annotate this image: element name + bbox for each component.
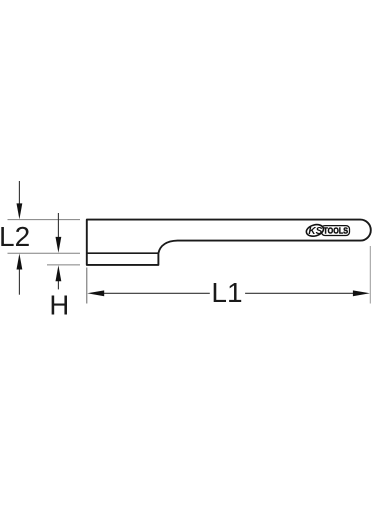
svg-text:L2: L2 bbox=[0, 221, 30, 252]
tool outline bbox=[87, 220, 371, 265]
extension line top bbox=[8, 219, 81, 221]
svg-text:H: H bbox=[49, 290, 69, 321]
dimension H top arrow bbox=[56, 213, 62, 253]
extension line step bbox=[8, 252, 81, 254]
extension line blade bottom bbox=[47, 264, 80, 266]
tool inner step line bbox=[87, 252, 159, 254]
dimension H bottom arrow bbox=[56, 265, 62, 289]
svg-text:TOOLS: TOOLS bbox=[323, 226, 348, 236]
dimension L1 line left + arrow bbox=[87, 290, 210, 296]
dimension L1 line right + arrow bbox=[245, 290, 370, 296]
extension line L1 right bbox=[369, 246, 371, 304]
dimension L2 top arrow bbox=[17, 181, 23, 219]
svg-text:KS: KS bbox=[308, 226, 322, 237]
dimension L2 bottom arrow bbox=[17, 254, 23, 295]
svg-text:L1: L1 bbox=[211, 277, 242, 308]
KS TOOLS logo bbox=[305, 223, 349, 238]
extension line L1 left bbox=[86, 268, 88, 304]
